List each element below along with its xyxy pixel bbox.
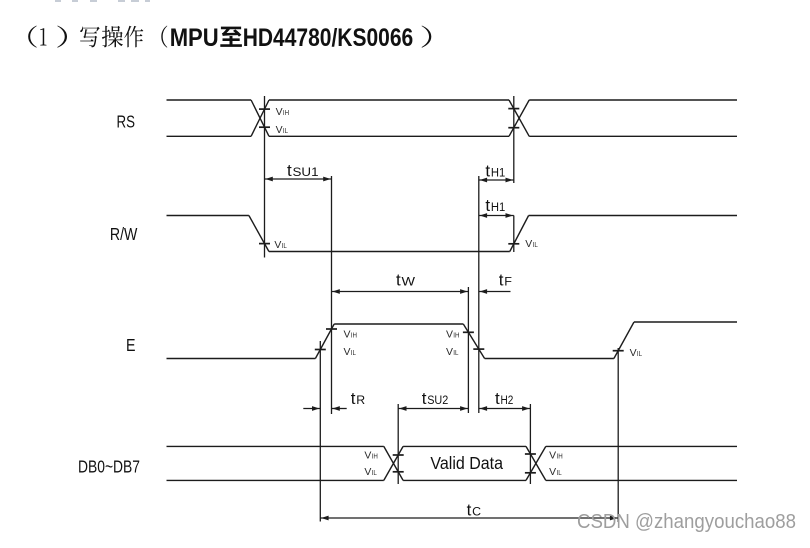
title hanzi 操 xyxy=(102,26,123,48)
svg-text:V: V xyxy=(549,451,556,462)
dimension arrow tH1 lower xyxy=(479,213,514,218)
svg-text:R/W: R/W xyxy=(110,224,138,244)
reference line D at RS crossing 2 / tH1 right (two segments) xyxy=(513,96,515,252)
svg-text:V: V xyxy=(446,330,453,341)
svg-text:t: t xyxy=(495,389,500,408)
title fullwidth paren ( xyxy=(28,26,37,48)
threshold tick marks xyxy=(259,109,624,473)
svg-text:IH: IH xyxy=(453,333,459,340)
svg-text:C: C xyxy=(472,507,481,519)
dimension arrow tH2 xyxy=(479,406,531,411)
svg-text:IL: IL xyxy=(351,350,356,357)
svg-text:t: t xyxy=(467,501,472,520)
svg-text:H1: H1 xyxy=(491,168,505,180)
svg-text:V: V xyxy=(364,451,371,462)
svg-text:t: t xyxy=(485,196,490,215)
svg-text:IL: IL xyxy=(453,350,458,357)
svg-text:IL: IL xyxy=(372,470,377,477)
svg-text:HD44780/KS0066: HD44780/KS0066 xyxy=(243,24,414,52)
dimension arrow tC xyxy=(320,516,618,521)
svg-text:V: V xyxy=(274,240,281,251)
svg-text:Valid Data: Valid Data xyxy=(430,453,503,473)
dimension arrow tR (external arrows) xyxy=(303,406,346,411)
DB transition crossing 1 xyxy=(384,446,403,480)
svg-text:W: W xyxy=(402,277,416,289)
dimension arrow tF (external, pointing left at line C) xyxy=(479,289,511,294)
title hanzi 写 xyxy=(80,27,100,48)
svg-text:V: V xyxy=(630,348,637,359)
svg-text:IH: IH xyxy=(372,454,378,461)
svg-text:t: t xyxy=(351,389,356,408)
reference line G tW right / tSU2 right xyxy=(467,287,469,413)
RS transition crossing 1 xyxy=(251,100,269,136)
svg-text:V: V xyxy=(344,330,351,341)
reference line I tH2 right at DB crossing 2 xyxy=(529,404,531,484)
svg-text:V: V xyxy=(344,347,351,358)
clipped text remnants of previous line at top edge xyxy=(55,0,150,2)
svg-text:SU1: SU1 xyxy=(293,167,319,179)
title digit 1 xyxy=(40,28,46,45)
wire RS low level segments xyxy=(167,135,738,137)
svg-text:t: t xyxy=(485,162,490,181)
svg-text:IH: IH xyxy=(351,333,357,340)
svg-text:CSDN @zhangyouchao88: CSDN @zhangyouchao88 xyxy=(577,510,796,533)
svg-text:V: V xyxy=(525,239,532,250)
svg-text:MPU: MPU xyxy=(170,24,219,52)
svg-text:IL: IL xyxy=(282,243,287,250)
dimension arrow tSU1 xyxy=(265,177,332,182)
dimension arrow tH1 upper xyxy=(479,178,514,183)
svg-text:t: t xyxy=(396,271,401,290)
wire DB0-DB7 high level segments xyxy=(167,445,738,447)
title fullwidth paren ( 2 xyxy=(161,26,167,48)
svg-text:RS: RS xyxy=(117,111,136,131)
svg-text:IL: IL xyxy=(557,470,562,477)
title hanzi 作 xyxy=(124,26,143,48)
wire E low / rising / high / falling / low / rising / high xyxy=(167,322,738,359)
svg-text:DB0~DB7: DB0~DB7 xyxy=(78,457,140,477)
svg-text:E: E xyxy=(126,335,136,355)
DB transition crossing 2 xyxy=(526,446,546,480)
svg-text:IL: IL xyxy=(533,242,538,249)
dimension arrow tW xyxy=(332,289,469,294)
svg-text:H2: H2 xyxy=(501,395,514,407)
svg-text:t: t xyxy=(422,389,427,408)
svg-text:IH: IH xyxy=(557,454,563,461)
title fullwidth paren ) end xyxy=(421,26,431,48)
reference line F tSU2 left at DB crossing 1 xyxy=(397,404,399,484)
reference line B tSU1 right / tW left / tR right xyxy=(331,176,333,414)
svg-text:V: V xyxy=(446,347,453,358)
svg-text:H1: H1 xyxy=(491,202,505,214)
svg-text:t: t xyxy=(287,161,292,180)
svg-text:V: V xyxy=(276,125,283,136)
svg-text:t: t xyxy=(499,271,504,290)
svg-text:IL: IL xyxy=(637,351,642,358)
svg-text:V: V xyxy=(549,467,556,478)
svg-text:IL: IL xyxy=(283,128,288,135)
title fullwidth paren ) xyxy=(57,26,67,48)
svg-text:SU2: SU2 xyxy=(427,395,448,407)
svg-text:V: V xyxy=(364,467,371,478)
wire R/W high then falling edge then low then rising edge then high xyxy=(167,216,738,252)
reference line C tH1 left / tF left / tH2 left xyxy=(478,176,480,413)
reference line J at E right rising edge / tC right xyxy=(617,348,619,522)
title hanzi 至 (bold) xyxy=(220,27,242,47)
reference line A at RS crossing 1 / tSU1 left xyxy=(264,96,266,258)
svg-text:IH: IH xyxy=(283,110,289,117)
svg-text:F: F xyxy=(504,277,512,289)
reference line E-rise / tR left / tC left xyxy=(319,341,321,522)
RS transition crossing 2 xyxy=(509,100,529,136)
wire RS high level segments xyxy=(167,99,738,101)
wire DB0-DB7 low level segments xyxy=(167,479,738,481)
svg-text:R: R xyxy=(356,395,365,407)
dimension arrow tSU2 xyxy=(398,406,468,411)
svg-text:V: V xyxy=(276,107,283,118)
